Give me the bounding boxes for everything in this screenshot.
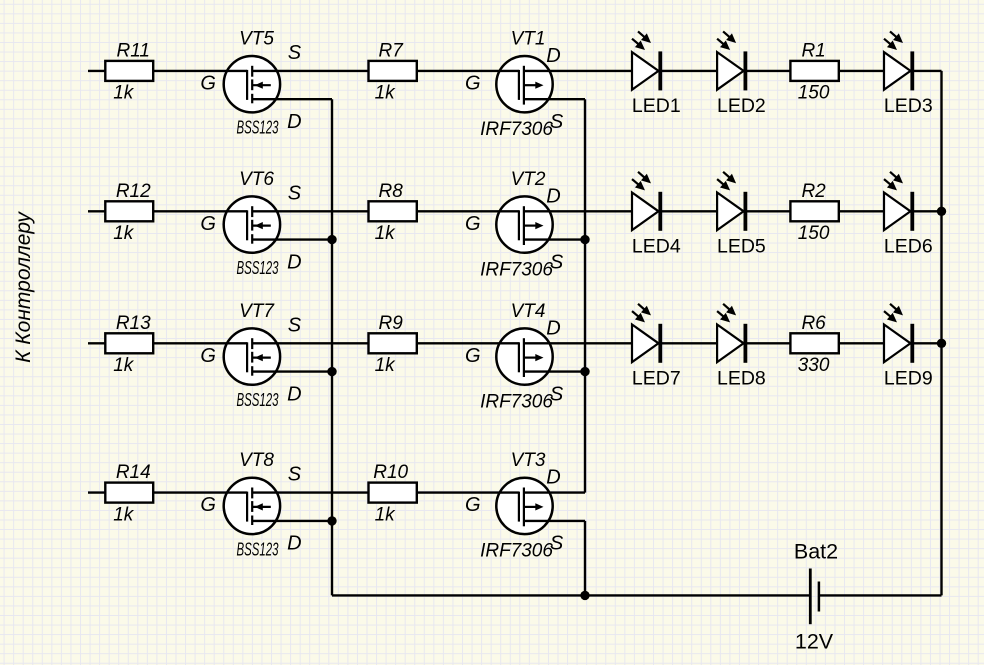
svg-text:D: D (287, 251, 301, 273)
svg-text:VT2: VT2 (511, 169, 546, 190)
svg-text:S: S (288, 464, 302, 486)
svg-text:G: G (465, 494, 481, 516)
svg-text:1k: 1k (113, 355, 135, 376)
svg-text:S: S (288, 182, 302, 204)
svg-text:D: D (546, 317, 560, 339)
svg-text:VT8: VT8 (239, 450, 274, 471)
svg-text:R13: R13 (116, 313, 151, 334)
svg-text:12V: 12V (795, 630, 834, 654)
svg-text:R10: R10 (373, 462, 408, 483)
svg-text:VT1: VT1 (511, 28, 546, 49)
svg-text:Bat2: Bat2 (794, 540, 838, 564)
svg-text:LED6: LED6 (884, 236, 933, 258)
svg-text:К Контроллеру: К Контроллеру (12, 211, 35, 363)
svg-text:BSS123: BSS123 (236, 258, 278, 278)
svg-text:LED1: LED1 (632, 95, 681, 117)
svg-text:G: G (200, 494, 216, 516)
svg-text:G: G (465, 213, 481, 235)
svg-text:IRF7306: IRF7306 (480, 391, 553, 412)
svg-text:LED9: LED9 (884, 368, 933, 390)
svg-text:330: 330 (798, 355, 830, 376)
svg-text:VT4: VT4 (511, 301, 546, 322)
svg-text:BSS123: BSS123 (236, 540, 278, 560)
svg-text:D: D (546, 185, 560, 207)
svg-text:D: D (287, 111, 301, 133)
svg-text:R7: R7 (379, 40, 405, 61)
svg-text:LED5: LED5 (717, 236, 766, 258)
svg-text:R12: R12 (116, 181, 151, 202)
svg-text:R2: R2 (801, 181, 826, 202)
svg-text:R6: R6 (801, 313, 826, 334)
svg-text:1k: 1k (375, 355, 397, 376)
svg-text:R8: R8 (379, 181, 404, 202)
svg-text:150: 150 (798, 223, 830, 244)
svg-text:S: S (288, 314, 302, 336)
svg-text:G: G (465, 72, 481, 94)
svg-text:IRF7306: IRF7306 (480, 541, 553, 562)
svg-text:D: D (546, 467, 560, 489)
svg-text:1k: 1k (113, 223, 135, 244)
svg-text:R9: R9 (379, 313, 404, 334)
svg-text:D: D (287, 533, 301, 555)
svg-text:VT3: VT3 (511, 450, 546, 471)
svg-text:G: G (200, 72, 216, 94)
svg-text:1k: 1k (375, 83, 397, 104)
svg-text:LED7: LED7 (632, 368, 681, 390)
svg-text:BSS123: BSS123 (236, 390, 278, 410)
svg-text:G: G (200, 213, 216, 235)
svg-text:D: D (546, 45, 560, 67)
svg-text:1k: 1k (113, 504, 135, 525)
svg-text:IRF7306: IRF7306 (480, 119, 553, 140)
svg-text:LED2: LED2 (717, 95, 766, 117)
svg-text:R14: R14 (116, 462, 151, 483)
svg-text:G: G (465, 345, 481, 367)
svg-text:150: 150 (798, 83, 830, 104)
svg-text:1k: 1k (375, 504, 397, 525)
svg-text:R11: R11 (117, 40, 150, 61)
svg-text:VT7: VT7 (239, 301, 275, 322)
svg-text:LED4: LED4 (632, 236, 681, 258)
svg-text:1k: 1k (113, 83, 135, 104)
svg-text:1k: 1k (375, 223, 397, 244)
svg-text:BSS123: BSS123 (236, 118, 278, 138)
svg-text:LED3: LED3 (884, 95, 933, 117)
svg-text:VT5: VT5 (239, 28, 274, 49)
svg-text:IRF7306: IRF7306 (480, 259, 553, 280)
svg-text:G: G (200, 345, 216, 367)
svg-text:S: S (288, 42, 302, 64)
svg-text:LED8: LED8 (717, 368, 766, 390)
svg-text:D: D (287, 383, 301, 405)
svg-text:R1: R1 (801, 40, 825, 61)
svg-text:VT6: VT6 (239, 169, 274, 190)
